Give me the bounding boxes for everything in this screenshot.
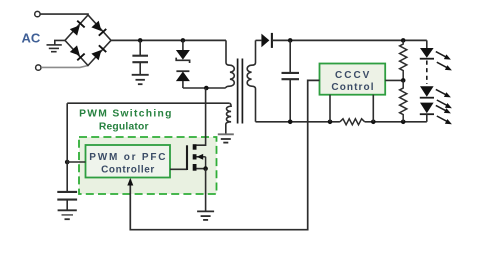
transformer auxiliary winding [226,103,231,133]
wire secondary top to output diode [256,39,262,41]
svg-text:PWM or PFC: PWM or PFC [89,152,167,163]
wire clamp bottom to transformer primary [183,87,226,89]
resistor current sense [340,119,365,125]
node vcc junction [65,160,70,165]
wire source to ground [205,169,207,211]
wire rectified DC rail [111,39,226,41]
svg-text:CCCV: CCCV [335,70,371,81]
capacitor vcc [57,192,77,210]
LED 3 [420,103,452,125]
wire vcc vertical [66,103,68,191]
earth ground at bridge left corner [47,40,66,51]
wire secondary return rail left part [256,121,340,123]
svg-text:Regulator: Regulator [99,122,149,133]
node cccv bottom right [371,120,376,125]
AC terminal top [35,11,40,16]
wire cccv bottom stub left [329,95,331,122]
bridge diode upper-right [91,21,107,37]
ground MOSFET source [197,211,214,220]
node source junction [203,166,208,171]
wire cccv left feedback [130,80,319,229]
svg-text:AC: AC [22,31,41,46]
wire secondary return rail right part [365,121,427,123]
node cap bottom [288,120,293,125]
transistor Q1 channel bars [193,144,197,171]
transistor Q1 drain lead [196,88,205,145]
node rail to clamp [181,38,186,43]
transformer secondary winding [247,40,255,121]
capacitor input filter [132,40,148,74]
wire dashed LED continuation [426,61,428,85]
ground input filter cap [132,75,149,84]
node rail to input cap [138,38,143,43]
wire top rail into LED string [426,40,428,48]
node output cap top [288,38,293,43]
LED 1 [420,48,452,70]
ground auxiliary winding [218,134,234,142]
transistor Q1 MOSFET gate bar [186,145,188,170]
zener clamp diode top [176,40,190,63]
clamp diode bottom [176,71,190,88]
bridge rectifier diamond [65,15,111,66]
resistor divider upper [400,40,407,80]
LED 2 [420,86,452,108]
transformer primary winding [226,40,235,88]
arrow feedback into controller [127,178,133,186]
svg-text:PWM Switching: PWM Switching [79,109,173,120]
diode output rectifier [261,33,272,48]
wire top AC terminal to bridge [40,14,88,15]
box PWM switching regulator dashed [79,137,217,194]
node rail to divider [401,38,406,43]
transistor Q1 source lead [196,168,205,170]
AC terminal bottom [36,65,41,70]
node divider mid [401,78,406,83]
svg-text:Controller: Controller [101,165,155,176]
ground vcc cap [58,210,77,219]
wire cccv bottom stub right [372,95,374,122]
box CCCV control [320,64,386,95]
transistor Q1 body lead with arrow [196,154,205,169]
resistor divider lower [400,80,407,121]
bridge diode lower-right [91,45,107,61]
bridge diode lower-left [70,45,86,61]
node drain junction [204,86,209,91]
node cccv bottom left [328,120,333,125]
wire LED string bottom [426,114,428,122]
wire vcc to controller [67,161,85,163]
transformer core [237,59,239,124]
box PWM or PFC controller [86,145,171,178]
wire controller to gate [170,168,187,170]
node divider bottom [401,120,406,125]
capacitor output filter [282,40,300,121]
svg-text:Control: Control [331,82,374,93]
bridge diode upper-left [70,20,86,36]
wire bottom AC terminal to bridge [41,66,88,68]
wire auxiliary supply rail [67,102,229,104]
wire output rail [272,39,427,41]
wire cccv right to divider [385,79,403,81]
